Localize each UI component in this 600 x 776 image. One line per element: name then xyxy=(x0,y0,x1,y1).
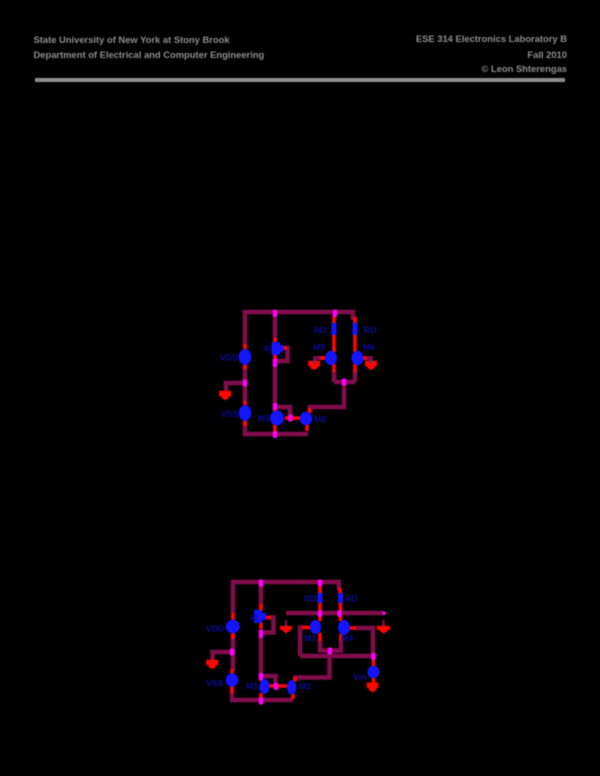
pin VSS minus xyxy=(243,420,247,426)
pin M1 source xyxy=(273,424,277,432)
wire right column top elbow xyxy=(339,582,341,590)
pin M2 source xyxy=(305,424,309,431)
pin Vin top xyxy=(372,657,376,666)
svg-text:M3: M3 xyxy=(304,633,316,643)
pin M6 gate xyxy=(361,356,368,360)
svg-text:Department of Electrical and C: Department of Electrical and Computer En… xyxy=(34,49,265,60)
svg-text:M4: M4 xyxy=(341,633,353,643)
resistor RD2 xyxy=(353,323,358,335)
source VSS xyxy=(226,673,239,687)
pin M5 gate nub xyxy=(266,616,271,620)
pin M4 drain xyxy=(339,615,343,621)
wire M1 diode connection xyxy=(275,407,290,417)
ground arrow left xyxy=(206,660,218,670)
svg-text:State University of New York a: State University of New York at Stony Br… xyxy=(34,34,231,45)
junction tail node xyxy=(328,648,332,655)
pin VDD plus xyxy=(243,344,247,350)
svg-text:VDD: VDD xyxy=(220,353,238,363)
junction top rail right xyxy=(333,310,337,317)
transistor M2 xyxy=(300,412,312,426)
wire tail bottom to M2 drain xyxy=(296,650,330,681)
junction long rail RD2 xyxy=(337,610,341,617)
source VSS xyxy=(239,405,251,421)
pin M3 source xyxy=(273,354,277,360)
junction top rail middle xyxy=(273,310,277,317)
wire top rail xyxy=(231,580,341,585)
wire bottom rail xyxy=(230,698,293,703)
junction M1 drain node xyxy=(259,673,263,680)
svg-text:M5: M5 xyxy=(251,613,259,623)
pin M1 drain xyxy=(273,407,277,412)
junction tail node xyxy=(342,379,346,386)
pin M6 source xyxy=(353,364,357,372)
junction M1 source node xyxy=(259,698,263,705)
svg-text:Fall 2010: Fall 2010 xyxy=(527,49,567,60)
source VDD xyxy=(239,349,251,365)
junction supply ground node xyxy=(230,649,234,656)
ground arrow left xyxy=(219,391,231,401)
pin RD2 bottom xyxy=(339,602,343,611)
wire middle column lower xyxy=(273,359,278,407)
wire gate bus B xyxy=(300,654,374,659)
ground arrow long rail right xyxy=(377,626,390,634)
svg-text:VSS: VSS xyxy=(206,678,224,688)
transistor M3 (diode-connected) xyxy=(272,342,284,355)
wire M1 diode connection xyxy=(261,676,276,685)
svg-text:M1: M1 xyxy=(258,413,270,423)
pin RD2 top xyxy=(353,317,357,324)
svg-text:RD: RD xyxy=(364,325,377,335)
resistor RD2 xyxy=(338,593,343,603)
junction M1 gate node xyxy=(274,683,278,690)
wire VDD to ground junction xyxy=(231,634,236,671)
pin RD1 bottom xyxy=(318,602,322,611)
svg-text:M1: M1 xyxy=(246,681,258,691)
junction Vin gate node xyxy=(371,653,375,660)
svg-text:VSS: VSS xyxy=(221,409,239,419)
ground arrow below Vin xyxy=(367,683,379,693)
transistor M5 xyxy=(325,351,337,365)
wire differential pair source U xyxy=(318,640,343,651)
wire middle column lower xyxy=(259,631,264,678)
transistor M4 xyxy=(338,620,350,635)
svg-text:VDD: VDD xyxy=(206,623,224,633)
wire VSS to bottom rail xyxy=(230,687,235,702)
svg-text:M6: M6 xyxy=(363,342,375,352)
wire top rail xyxy=(243,310,355,315)
wire bottom rail xyxy=(243,432,308,437)
junction M1 drain node xyxy=(273,403,277,410)
pin RD2 bottom to M6 drain xyxy=(353,334,357,352)
pin RD1 bottom to M5 drain xyxy=(332,334,336,352)
svg-text:M2: M2 xyxy=(314,414,326,424)
pin VDD minus xyxy=(231,633,235,639)
transistor M3 xyxy=(310,620,321,634)
wire right column top elbow xyxy=(351,310,356,320)
junction long rail RD1 xyxy=(318,610,322,617)
pin M4 gate xyxy=(348,626,356,630)
wire M1-M2 gate bus xyxy=(269,684,288,688)
pin VDD plus xyxy=(231,613,235,620)
pin M2 drain xyxy=(308,408,312,413)
pin VSS minus xyxy=(230,687,234,694)
wire middle column upper xyxy=(273,312,278,340)
pin Vin bottom xyxy=(372,678,376,683)
wire M5 gate to ground elbow xyxy=(313,356,320,360)
svg-text:ESE 314 Electronics Laboratory: ESE 314 Electronics Laboratory B xyxy=(416,33,567,44)
pin M5 gate xyxy=(319,356,326,360)
svg-text:Vin: Vin xyxy=(353,672,366,682)
junction top rail RD1 xyxy=(318,580,322,587)
svg-text:RD: RD xyxy=(345,594,358,604)
pin M1 source xyxy=(259,693,263,699)
pin RD2 top xyxy=(338,588,342,594)
wire M4 gate drop xyxy=(355,628,373,654)
pin M2 drain xyxy=(293,677,297,682)
junction supply ground node xyxy=(243,380,247,387)
svg-text:RD: RD xyxy=(304,594,317,604)
pin RD1 top xyxy=(318,585,322,594)
pin RD1 top xyxy=(332,315,336,324)
wire M3 gate drop xyxy=(300,628,303,657)
pin M3 drain xyxy=(273,338,277,343)
wire middle column upper xyxy=(259,582,264,607)
wire left supply vertical xyxy=(231,580,236,614)
wire ground branch xyxy=(226,383,247,391)
svg-text:M3: M3 xyxy=(264,344,271,354)
pin M1 drain xyxy=(259,676,263,681)
svg-text:M5: M5 xyxy=(313,342,325,352)
ground arrow M6 gate xyxy=(365,361,377,371)
transistor M1 xyxy=(270,411,284,426)
resistor RD1 xyxy=(318,593,323,603)
transistor M2 xyxy=(287,680,296,695)
pin M2 source xyxy=(291,694,295,699)
svg-text:© Leon Shterengas: © Leon Shterengas xyxy=(481,63,567,74)
transistor M5 (diode-connected) xyxy=(254,610,266,623)
junction M1 gate node xyxy=(288,415,292,422)
wire long gate rail xyxy=(286,611,383,616)
wire long rail left stem xyxy=(285,620,287,627)
junction M5 source node xyxy=(259,630,263,639)
junction M1 source node xyxy=(273,431,277,438)
pin M5 source xyxy=(259,622,263,629)
transistor M1 xyxy=(260,679,270,694)
pin M3 source xyxy=(318,633,322,641)
source VDD xyxy=(226,620,240,634)
pin M3 gate nub xyxy=(283,346,288,350)
svg-text:RD: RD xyxy=(314,325,327,335)
pin M4 source xyxy=(339,634,343,641)
wire VSS to bottom rail xyxy=(243,421,248,436)
wire M1-M2 gate bus xyxy=(285,416,301,420)
pin M3 gate xyxy=(302,626,311,630)
junction M3 source node xyxy=(273,359,277,368)
resistor RD1 xyxy=(332,323,337,335)
pin VSS plus xyxy=(230,669,234,674)
wire VDD to ground junction xyxy=(243,365,248,403)
wire ground branch xyxy=(213,652,236,660)
pin VDD minus xyxy=(243,364,247,369)
wire left supply vertical xyxy=(243,310,248,347)
pin VSS plus xyxy=(243,401,247,406)
svg-text:M2: M2 xyxy=(299,681,311,691)
wire long rail right stem xyxy=(382,620,385,627)
wire differential pair source U xyxy=(334,370,355,382)
wire M3 diode loop xyxy=(277,348,288,361)
ground arrow long rail left xyxy=(280,626,292,634)
header rule xyxy=(35,78,565,82)
pin M5 drain xyxy=(259,604,263,611)
wire M6 gate to ground elbow xyxy=(367,356,373,360)
transistor M6 xyxy=(352,351,364,365)
ground arrow M5 gate xyxy=(308,361,320,371)
pin M3 drain xyxy=(318,615,322,621)
wire M5 diode loop xyxy=(263,618,274,633)
source Vin xyxy=(368,666,380,679)
pin end marker long rail right xyxy=(383,612,386,615)
wire tail to M2 drain xyxy=(310,383,344,412)
junction top rail middle xyxy=(259,580,263,587)
pin M5 source xyxy=(332,364,336,372)
